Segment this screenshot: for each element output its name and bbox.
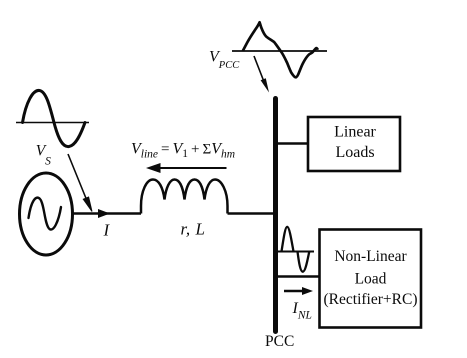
svg-text:Non-Linear: Non-Linear <box>334 248 407 265</box>
svg-text:Load: Load <box>355 271 387 288</box>
source waveform VS baseline <box>16 122 89 124</box>
svg-text:PCC: PCC <box>265 333 294 350</box>
wire inductor to bus <box>228 212 277 215</box>
svg-text:(Rectifier+RC): (Rectifier+RC) <box>324 291 418 308</box>
svg-text:Linear: Linear <box>334 124 376 141</box>
svg-text:r, L: r, L <box>181 220 206 239</box>
non-linear load box <box>320 230 422 328</box>
wire source to inductor <box>73 212 142 215</box>
source waveform VS sine <box>23 90 86 146</box>
wire bus to non-linear load <box>277 275 319 278</box>
AC source inner sine <box>29 198 62 230</box>
VPCC distorted waveform <box>243 22 318 77</box>
VPCC waveform baseline <box>232 50 327 52</box>
arrow INL <box>284 287 313 295</box>
annotation arrow VS to wire <box>68 154 92 212</box>
AC source G1 <box>20 173 73 255</box>
current arrowhead I <box>98 209 110 218</box>
bus PCC <box>273 99 278 332</box>
linear loads box <box>308 117 400 171</box>
NL current waveform baseline <box>276 251 315 253</box>
NL current distorted waveform <box>282 227 310 272</box>
annotation arrow VPCC to bus <box>254 56 269 93</box>
wire bus to linear loads <box>277 142 308 145</box>
svg-text:Loads: Loads <box>335 144 374 161</box>
inductor r,L <box>141 180 228 214</box>
Vline direction arrow <box>146 163 227 173</box>
